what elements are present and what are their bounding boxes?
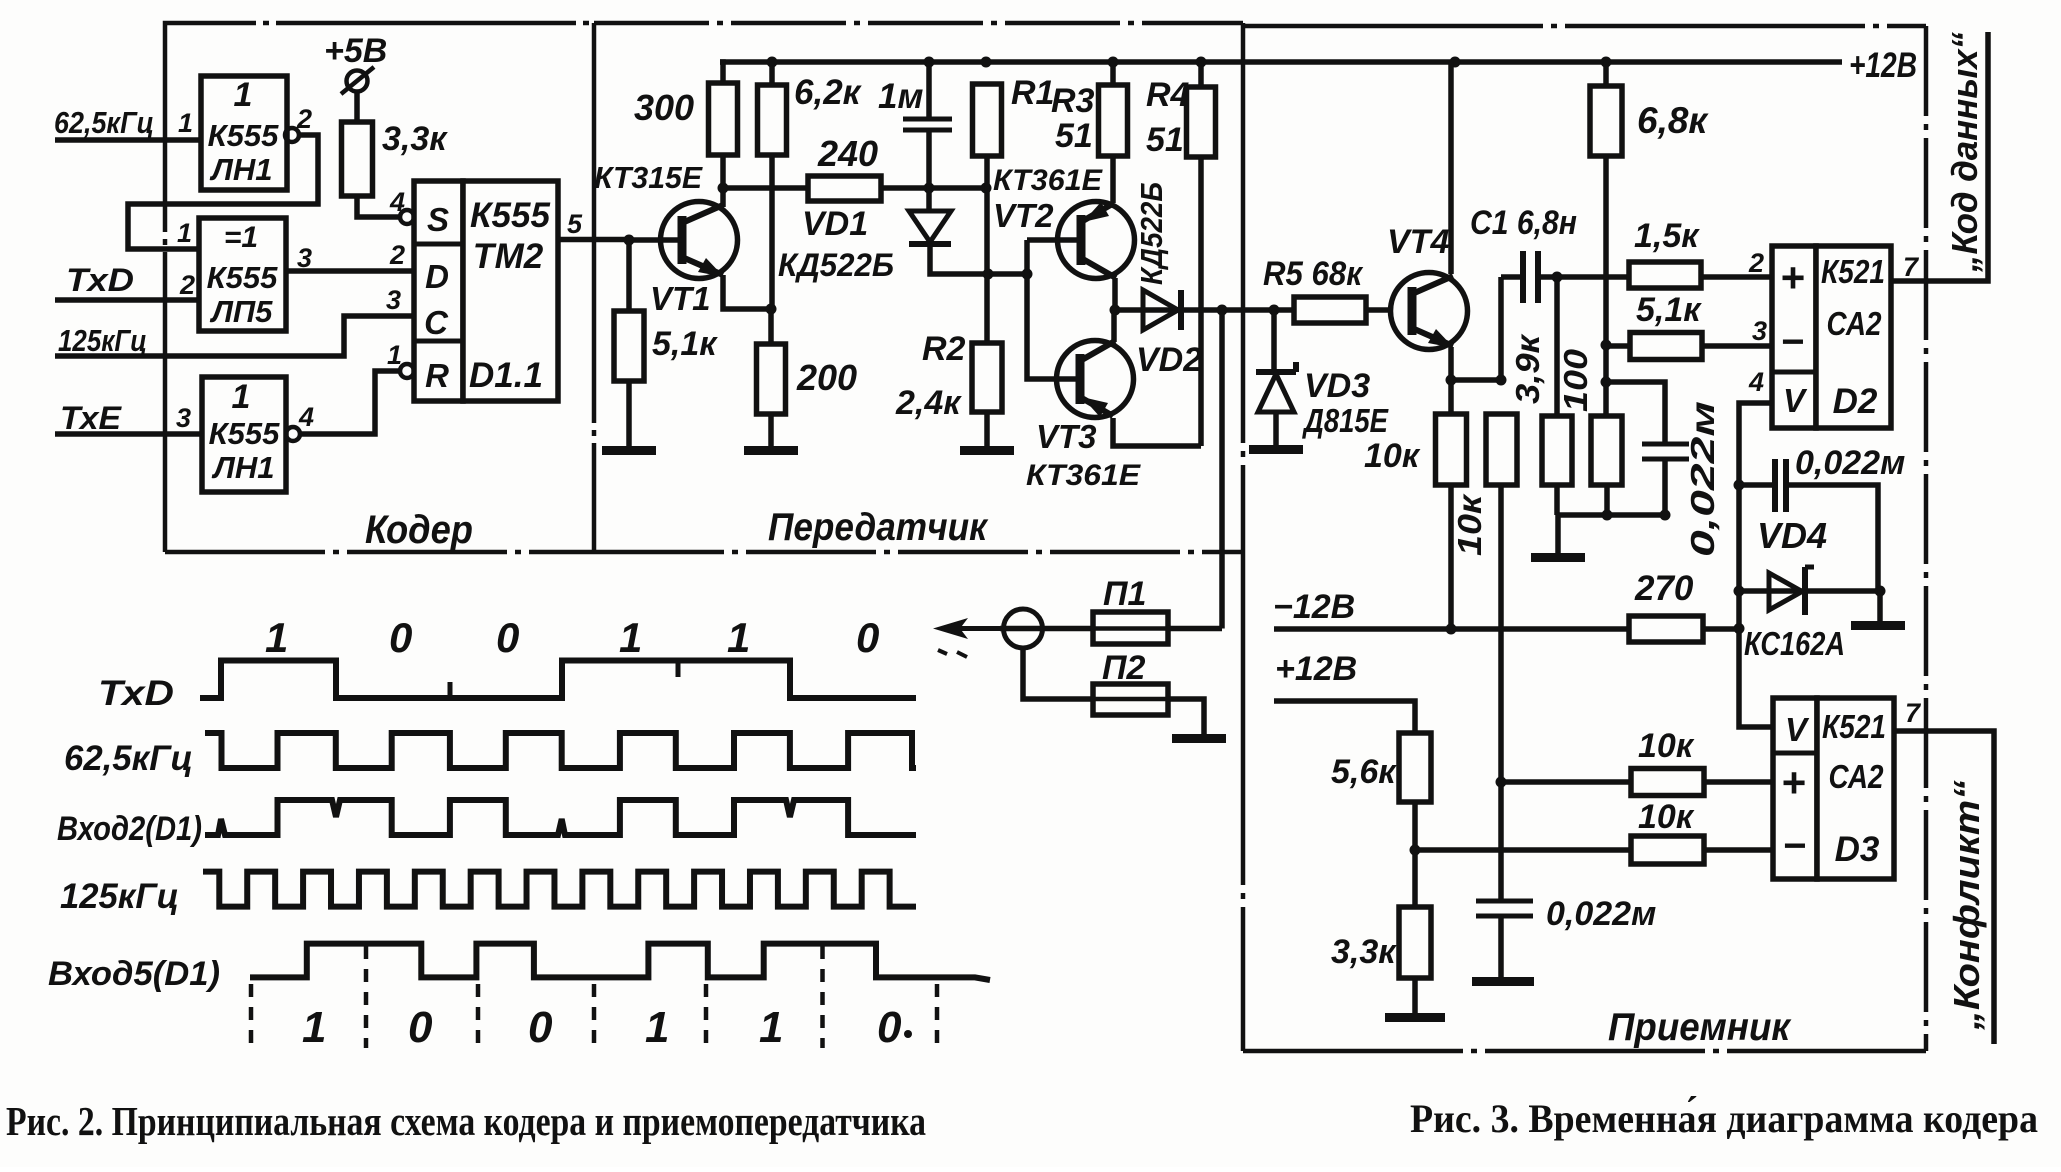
svg-text:0: 0	[856, 614, 879, 661]
resistor 10к (second, emitter divider)	[1486, 414, 1517, 485]
dashed bit boundary x=478	[476, 984, 481, 1048]
svg-text:Кодер: Кодер	[365, 508, 473, 552]
svg-text:С1 6,8н: С1 6,8н	[1470, 204, 1577, 242]
svg-text:„Код данных“: „Код данных“	[1944, 32, 1985, 273]
wire to C1 left	[1501, 274, 1523, 280]
svg-text:10к: 10к	[1451, 492, 1488, 556]
wire R5 to VT4 base	[1366, 307, 1391, 313]
ground under VD4	[1851, 621, 1905, 630]
resistor 6,2к	[758, 85, 787, 155]
svg-text:Д815Е: Д815Е	[1302, 402, 1389, 439]
svg-text:6,2к: 6,2к	[794, 73, 863, 112]
junction VD2 line/VD3 branch	[1269, 305, 1280, 316]
svg-text:3: 3	[1752, 316, 1767, 346]
junction rail/6,2к	[767, 57, 778, 68]
wire ground bus	[1557, 512, 1665, 518]
wire rail to R4	[1198, 62, 1204, 87]
wire П1 to branch	[1168, 626, 1222, 632]
junction ground bus/cap	[1660, 510, 1671, 521]
ground under 200	[744, 446, 798, 455]
wire +12V top rail	[720, 59, 1842, 65]
wire 1,5к to pin2	[1701, 274, 1772, 280]
svg-text:6,8к: 6,8к	[1637, 100, 1709, 141]
svg-text:К555: К555	[470, 196, 550, 235]
svg-text:1: 1	[234, 76, 253, 114]
svg-text:1: 1	[265, 614, 288, 661]
wire R4 to VT3 emitter path	[1198, 157, 1204, 446]
wire VT2 collector	[1112, 278, 1118, 310]
svg-text:10к: 10к	[1364, 437, 1421, 475]
junction R1 bottom	[981, 183, 992, 194]
wire VD2 output line	[1115, 307, 1294, 313]
svg-text:240: 240	[817, 133, 878, 174]
dashed bit boundary x=594	[592, 984, 597, 1048]
svg-text:КД522Б: КД522Б	[778, 247, 894, 283]
svg-text:R: R	[425, 357, 449, 394]
svg-text:D2: D2	[1833, 382, 1878, 421]
wire 100 to ground line	[1604, 485, 1610, 515]
inversion circle S input D1.1	[400, 210, 414, 224]
flip-flop D1.1 К555 ТМ2 pin column	[414, 181, 463, 401]
svg-text:R4: R4	[1146, 76, 1190, 114]
wire ТхD input	[55, 297, 199, 303]
comparator D2 К521СА2 pin column	[1772, 246, 1816, 428]
svg-text:R5 68к: R5 68к	[1263, 255, 1364, 293]
svg-text:7: 7	[1905, 698, 1922, 728]
flip-flop D1.1 К555 ТМ2 body	[463, 181, 558, 401]
svg-text:VD2: VD2	[1136, 341, 1202, 379]
junction D1.1 out/VT1 base/5,1к	[624, 235, 635, 246]
ground under R2	[960, 446, 1014, 455]
svg-text:1: 1	[759, 1003, 783, 1052]
wire rail to 6,2к	[769, 62, 775, 85]
coder block border (bottom)	[165, 550, 594, 555]
resistor 5,1к	[614, 311, 644, 381]
svg-text:62,5кГц: 62,5кГц	[64, 739, 193, 778]
svg-text:D3: D3	[1835, 830, 1880, 869]
svg-text:4: 4	[1748, 367, 1764, 397]
resistor 5,1к (receiver)	[1630, 333, 1702, 360]
dashed bit boundary x=366	[364, 946, 369, 1048]
wire 5,1к to pin3	[1702, 343, 1772, 349]
svg-text:„Конфликт“: „Конфликт“	[1946, 780, 1987, 1031]
wire rail to 6,8к	[1603, 62, 1609, 86]
svg-text:D1.1: D1.1	[469, 356, 543, 395]
junction rail/R1	[981, 57, 992, 68]
wire node to 3,9к	[1554, 277, 1560, 416]
junction emitter/6,2к/200	[766, 304, 777, 315]
svg-text:3: 3	[176, 403, 191, 433]
svg-text:1м: 1м	[878, 77, 923, 116]
wire VD4 anode line	[1739, 588, 1880, 594]
transistor VT3 КТ361Е	[1057, 341, 1134, 418]
svg-text:СА2: СА2	[1829, 758, 1885, 795]
svg-text:1: 1	[232, 378, 251, 416]
junction divider 5,6к/3,3к	[1410, 845, 1421, 856]
comparator D2 К521СА2 body	[1816, 246, 1891, 428]
svg-text:0: 0	[408, 1003, 433, 1052]
svg-text:5,1к: 5,1к	[652, 325, 718, 363]
wire node to VD3	[1271, 310, 1277, 372]
svg-text:125кГц: 125кГц	[60, 877, 179, 916]
wire to 10к (first)	[1448, 380, 1454, 414]
bit label dot	[904, 1030, 912, 1038]
wire D2 output Код данных	[1891, 32, 1988, 281]
svg-text:+: +	[1782, 759, 1807, 806]
svg-text:125кГц: 125кГц	[58, 323, 147, 358]
svg-text:К555: К555	[207, 260, 279, 295]
wire base node to VT3 base	[1027, 240, 1080, 379]
svg-text:0: 0	[389, 614, 412, 661]
resistor 240	[808, 176, 881, 201]
resistor 10к (VT4 emitter to -12V)	[1436, 414, 1467, 485]
svg-text:ТМ2: ТМ2	[473, 237, 544, 276]
wire connector shield to П2	[1023, 648, 1093, 699]
arrow output to line	[933, 618, 1000, 657]
wire 125кГц input to C	[55, 316, 414, 356]
resistor 3,3к (receiver)	[1399, 907, 1431, 978]
capacitor С1	[1523, 251, 1538, 303]
svg-text:=1: =1	[224, 221, 258, 254]
inversion circle output gate DD3	[286, 427, 300, 441]
svg-text:К555: К555	[208, 118, 280, 153]
svg-text:1: 1	[302, 1003, 326, 1052]
resistor 270	[1629, 616, 1703, 642]
wire through П2	[1094, 697, 1167, 702]
junction VD4/cap2/ground	[1875, 586, 1886, 597]
ground under П2	[1172, 734, 1226, 743]
svg-text:C: C	[424, 304, 449, 341]
resistor 3,9к	[1542, 416, 1572, 485]
svg-text:КС162А: КС162А	[1744, 625, 1845, 662]
wire branch to cap 0,022м	[1606, 382, 1665, 444]
svg-text:62,5кГц: 62,5кГц	[54, 105, 154, 140]
transmitter block border (top)	[594, 21, 1243, 26]
junction ground bus/100	[1602, 510, 1613, 521]
svg-text:−12В: −12В	[1273, 588, 1355, 626]
wire 3,3к to ground	[1412, 978, 1418, 1013]
svg-text:5,1к: 5,1к	[1636, 291, 1702, 329]
svg-text:1: 1	[727, 614, 750, 661]
transmitter block border (bottom)	[594, 550, 1243, 555]
svg-text:+12В: +12В	[1275, 650, 1357, 688]
svg-text:Передатчик: Передатчик	[768, 506, 989, 549]
svg-text:+5В: +5В	[324, 32, 387, 70]
wire VT3 emitter to R4	[1113, 418, 1201, 446]
wire + node to 10к	[1501, 779, 1631, 785]
XOR gate DD2 К555 ЛП5	[199, 218, 286, 331]
junction 6,8к/5,1к	[1601, 340, 1612, 351]
junction collectors/VD2	[1110, 305, 1121, 316]
wire VT4 collector to +12V rail	[1448, 62, 1454, 274]
dashed bit boundary x=937	[935, 984, 940, 1048]
resistor 6,8к	[1590, 86, 1622, 156]
wire R3 to VT2 emitter	[1110, 156, 1116, 203]
svg-text:3: 3	[386, 285, 401, 315]
ground under VD3	[1249, 445, 1303, 454]
wire 5,1к to ground	[626, 381, 632, 446]
svg-text:5: 5	[567, 209, 583, 239]
svg-text:ТхЕ: ТхЕ	[60, 400, 123, 436]
junction rail/R3	[1108, 57, 1119, 68]
wire node to 5,1к	[626, 240, 632, 311]
svg-text:51: 51	[1055, 117, 1093, 155]
wire − node to 10к	[1415, 847, 1631, 853]
svg-text:П1: П1	[1103, 575, 1146, 613]
wire cap to ground line	[1662, 459, 1668, 515]
connector circle +5В	[347, 71, 368, 92]
svg-text:VT1: VT1	[650, 280, 711, 317]
svg-text:7: 7	[1903, 252, 1920, 282]
svg-text:ТхD: ТхD	[66, 262, 134, 298]
divider D2 V cell	[1772, 370, 1816, 375]
capacitor 0,022м (reference filter)	[1642, 444, 1689, 459]
wire +12V to 5,6к	[1274, 701, 1415, 733]
svg-text:R1: R1	[1011, 74, 1054, 112]
svg-text:КТ315Е: КТ315Е	[594, 160, 703, 195]
diode VD1 КД522Б	[909, 211, 951, 244]
svg-text:КТ361Е: КТ361Е	[993, 164, 1103, 197]
resistor 200	[757, 344, 786, 414]
wire C1 branch down to emitter node	[1498, 277, 1504, 380]
wire VD3 to ground	[1273, 412, 1279, 445]
capacitor 0,022м (integrator)	[1476, 901, 1533, 916]
wire +5В to resistor 3,3к	[354, 92, 360, 122]
wire cap 1м to VD1	[926, 130, 932, 211]
svg-text:1,5к: 1,5к	[1634, 217, 1700, 255]
junction VD2 line/П1 branch	[1217, 305, 1228, 316]
svg-text:VD1: VD1	[802, 205, 868, 243]
svg-text:3,3к: 3,3к	[1331, 933, 1397, 971]
junction base node split	[1022, 269, 1033, 280]
diode VD2 КД522Б	[1143, 290, 1181, 330]
wire 62,5кГц input	[55, 137, 201, 143]
svg-text:100: 100	[1557, 348, 1594, 412]
svg-text:300: 300	[634, 87, 694, 128]
svg-text:+12В: +12В	[1849, 46, 1917, 85]
svg-text:+: +	[1781, 254, 1806, 301]
receiver block border (bottom)	[1243, 1049, 1926, 1054]
junction rail/R4	[1196, 57, 1207, 68]
junction VT4 emitter/10к	[1446, 375, 1457, 386]
svg-text:Рис. 2. Принципиальная схема к: Рис. 2. Принципиальная схема кодера и пр…	[6, 1098, 926, 1144]
svg-text:1: 1	[645, 1003, 669, 1052]
junction + input node D3	[1496, 777, 1507, 788]
wire feedback DD1 out to DD2 pin1	[128, 135, 318, 249]
resistor R1	[973, 84, 1002, 156]
receiver block border (left)	[1241, 23, 1246, 1051]
junction 300/collector/240	[718, 183, 729, 194]
svg-text:−: −	[1781, 320, 1804, 364]
svg-text:0,022м: 0,022м	[1684, 401, 1721, 557]
junction 6,8к/cap branch	[1601, 377, 1612, 388]
svg-text:СА2: СА2	[1827, 305, 1883, 342]
wire −12V line	[1274, 626, 1629, 632]
ground under divider	[1531, 553, 1585, 562]
svg-text:Приемник: Приемник	[1608, 1006, 1792, 1049]
svg-text:КТ361Е: КТ361Е	[1026, 459, 1141, 492]
resistor 10к (D3 +)	[1631, 769, 1704, 796]
wire rail to cap 1м	[926, 62, 932, 119]
svg-text:V: V	[1783, 382, 1808, 419]
svg-text:0,022м: 0,022м	[1795, 444, 1905, 482]
wire 5,6к to 3,3к	[1412, 802, 1418, 907]
wire 200 to ground	[768, 414, 774, 446]
wire C1 to 1,5к	[1538, 274, 1629, 280]
wire 10к-2 down to D3 + node and cap	[1498, 485, 1504, 903]
inversion circle R input D1.1	[400, 364, 414, 378]
coder/transmitter shared border	[592, 23, 597, 552]
svg-text:К521: К521	[1821, 253, 1885, 290]
svg-text:D: D	[425, 258, 449, 295]
resistor 3,3к	[342, 122, 373, 196]
svg-text:VT4: VT4	[1387, 223, 1449, 261]
transistor VT2 КТ361Е	[1058, 202, 1135, 279]
svg-text:0: 0	[496, 614, 519, 661]
wire ТхЕ input	[55, 431, 202, 437]
waveform Вход5(D1)	[250, 944, 990, 980]
svg-text:ЛП5: ЛП5	[210, 294, 274, 329]
svg-text:КД522Б: КД522Б	[1134, 182, 1169, 285]
resistor 10к (D3 −)	[1631, 836, 1704, 864]
ground under 3,3к	[1385, 1013, 1445, 1022]
wire arrow through connector to П1	[1000, 626, 1093, 632]
wire 3,3к to S input	[357, 196, 400, 217]
wire cap3 to ground	[1498, 916, 1504, 977]
dashed bit boundary x=251	[249, 984, 254, 1048]
svg-text:4: 4	[298, 402, 314, 432]
svg-text:1: 1	[619, 614, 642, 661]
coder block border (left/top)	[165, 23, 594, 552]
svg-text:R3: R3	[1051, 82, 1095, 120]
junction rail/VT4	[1450, 57, 1461, 68]
svg-text:Вход5(D1): Вход5(D1)	[48, 955, 220, 993]
wire VT4 emitter down	[1448, 347, 1454, 380]
capacitor 1м	[903, 119, 952, 130]
wire 6,2к to emitter node	[769, 155, 775, 309]
svg-text:3,9к: 3,9к	[1509, 333, 1546, 404]
wire ground bus to ground	[1555, 515, 1561, 553]
svg-text:VD4: VD4	[1757, 515, 1827, 556]
wire emitter node	[1451, 377, 1501, 383]
glitch tick ТхD 2	[676, 661, 681, 678]
junction C1/3,9к	[1552, 272, 1563, 283]
wire DD3 out to R input	[300, 371, 400, 434]
wire D1.1 output pin5	[558, 237, 629, 243]
wire VT1 emitter	[723, 275, 771, 309]
wire cap2 to VD4 cathode	[1786, 485, 1878, 591]
resistor R4	[1187, 87, 1216, 157]
svg-text:1: 1	[178, 108, 193, 138]
wire rail to R3	[1110, 62, 1116, 85]
wire 10к to D3 +	[1704, 779, 1773, 785]
svg-text:270: 270	[1634, 569, 1694, 608]
wire 10к to -12V line	[1448, 485, 1454, 629]
zener diode VD3 Д815Е	[1256, 362, 1296, 412]
junction emitter node/10к/С1	[1496, 375, 1507, 386]
junction rail/6,8к	[1601, 57, 1612, 68]
resistor 300	[709, 83, 738, 155]
divider D3 V cell	[1773, 751, 1817, 756]
waveform 62,5кГц	[205, 733, 916, 768]
inverter gate DD1 К555 ЛН1 (top)	[201, 76, 287, 190]
svg-text:2: 2	[389, 240, 405, 270]
wire through П1	[1094, 626, 1167, 631]
receiver block border (top)	[1243, 24, 1926, 29]
svg-text:VD3: VD3	[1304, 367, 1370, 405]
wire 6,8к down (reference divider)	[1603, 156, 1609, 416]
svg-text:Вход2(D1): Вход2(D1)	[57, 810, 202, 848]
wire 270 to V bus	[1703, 626, 1739, 632]
svg-text:2: 2	[179, 270, 195, 300]
dashed bit boundary x=706	[704, 984, 709, 1048]
svg-text:3,3к: 3,3к	[382, 120, 448, 158]
junction R1-R2/base node	[983, 269, 994, 280]
svg-text:VT3: VT3	[1036, 418, 1097, 455]
divider C/R cell	[414, 339, 463, 344]
wire V bus to cap2	[1739, 482, 1775, 488]
wire R1 to R2	[984, 156, 990, 343]
junction 1м/VD1/240	[924, 183, 935, 194]
wire VT2 base	[1027, 237, 1081, 243]
junction V bus/VD4	[1734, 586, 1745, 597]
svg-text:Рис. 3. Временна́я диаграмма к: Рис. 3. Временна́я диаграмма кодера	[1410, 1096, 2038, 1141]
svg-text:2: 2	[1748, 248, 1764, 278]
svg-text:10к: 10к	[1638, 727, 1695, 765]
wire branch down to П1	[1219, 310, 1225, 629]
waveform Вход2(D1)	[205, 800, 916, 835]
svg-text:ТхD: ТхD	[98, 674, 174, 713]
resistor 1,5к	[1629, 262, 1701, 288]
svg-text:1: 1	[177, 218, 192, 248]
resistor R2	[972, 343, 1002, 412]
resistor R5	[1294, 297, 1366, 323]
wire П2 to ground	[1168, 699, 1204, 734]
svg-text:К555: К555	[209, 416, 281, 451]
junction −12V/10к	[1446, 624, 1457, 635]
svg-text:2: 2	[296, 104, 312, 134]
resistor R3	[1099, 85, 1128, 156]
receiver block border (right)	[1924, 26, 1929, 1051]
resistor 5,6к	[1399, 733, 1431, 802]
connector circle coax	[1004, 609, 1043, 648]
svg-text:0,022м: 0,022м	[1546, 895, 1656, 933]
svg-text:51: 51	[1146, 121, 1184, 159]
svg-text:10к: 10к	[1638, 798, 1695, 836]
wire node to 200	[768, 309, 774, 344]
wire VD1 to base node	[930, 244, 1027, 274]
wire DD2 output to D input	[286, 268, 414, 274]
svg-text:0: 0	[528, 1003, 553, 1052]
svg-text:R2: R2	[922, 330, 966, 368]
svg-text:−: −	[1783, 824, 1806, 868]
capacitor 0,022м (V filter)	[1775, 459, 1786, 512]
transistor VT1 КТ315Е	[661, 202, 738, 279]
wire VD4 to ground	[1877, 591, 1883, 621]
junction rail/1м	[924, 57, 935, 68]
svg-text:VT2: VT2	[993, 197, 1054, 234]
comparator D3 К521СА2 body	[1817, 698, 1894, 879]
transistor VT4	[1391, 273, 1468, 350]
jumper П1	[1093, 612, 1168, 644]
wire node 240/VD1/R1	[723, 185, 986, 191]
inverter gate DD3 К555 ЛН1 (bottom)	[202, 377, 286, 492]
wire 300 to VT1 collector node	[720, 155, 726, 207]
wire node to 5,1к	[1606, 343, 1630, 349]
wire R2 to ground	[984, 412, 990, 446]
wire VT3 collector	[1111, 310, 1117, 342]
dashed bit boundary x=822.5	[820, 946, 825, 1048]
